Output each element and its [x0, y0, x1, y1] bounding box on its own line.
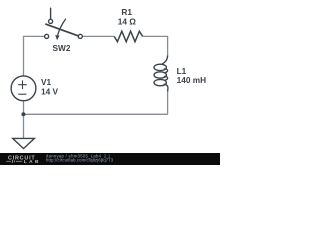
footer banner: [0, 153, 220, 165]
label V1: [41, 77, 52, 87]
wire: junction to ground: [23, 114, 25, 138]
svg-text:14 Ω: 14 Ω: [118, 17, 137, 27]
wire: V1 bottom to junction: [23, 101, 25, 114]
value 14 V: [41, 86, 59, 96]
svg-text:14 V: 14 V: [41, 86, 59, 96]
CircuitLab logo: [6, 155, 41, 165]
wire: L1 bottom to bottom-right corner: [167, 90, 169, 114]
wire: R1 right to top-right corner down to L1 top: [143, 36, 168, 57]
ground: [13, 138, 35, 148]
label R1: [121, 7, 132, 17]
wire: node A left rail + top-left segment to SW2 common: [24, 36, 45, 76]
junction dot: [21, 112, 25, 116]
label L1: [177, 66, 187, 76]
wire: SW2 right terminal to R1 left: [82, 35, 114, 37]
inductor L1: [154, 56, 168, 92]
switch SW2: [45, 8, 83, 40]
svg-text:SW2: SW2: [53, 43, 71, 53]
svg-text:R1: R1: [121, 7, 132, 17]
label SW2: [53, 43, 71, 53]
resistor R1: [114, 31, 142, 42]
value 140 mH: [177, 75, 207, 85]
footer text: [46, 153, 111, 158]
value 14 Ω: [118, 17, 137, 27]
svg-text:LAB: LAB: [24, 159, 41, 165]
wire: bottom rail: [24, 113, 168, 115]
svg-text:V1: V1: [41, 77, 52, 87]
svg-text:140 mH: 140 mH: [177, 75, 207, 85]
svg-text:http://circuitlab.com/c/q8zj6p: http://circuitlab.com/c/q8zj6pq773: [46, 157, 114, 162]
voltage source V1: [11, 76, 36, 101]
